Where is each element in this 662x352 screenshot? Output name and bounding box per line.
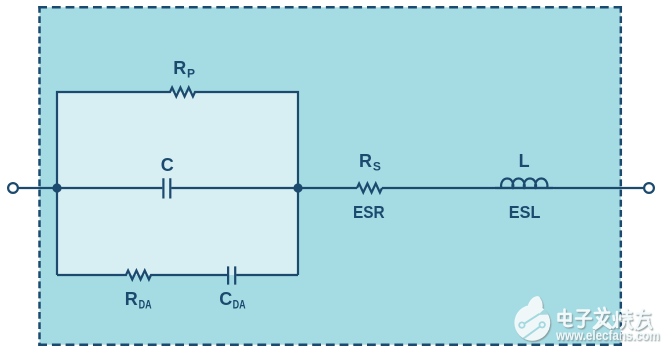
svg-text:L: L [519,151,530,171]
svg-text:S: S [373,160,381,174]
svg-text:C: C [161,155,174,175]
svg-text:P: P [187,67,195,81]
svg-text:DA: DA [139,297,152,311]
svg-text:R: R [125,289,138,309]
svg-text:R: R [359,151,372,171]
svg-text:DA: DA [233,297,246,311]
svg-text:ESL: ESL [509,202,541,222]
svg-text:www.elecfans.com: www.elecfans.com [555,327,659,343]
svg-text:C: C [219,289,232,309]
svg-text:ESR: ESR [353,202,385,222]
svg-text:R: R [173,58,186,78]
